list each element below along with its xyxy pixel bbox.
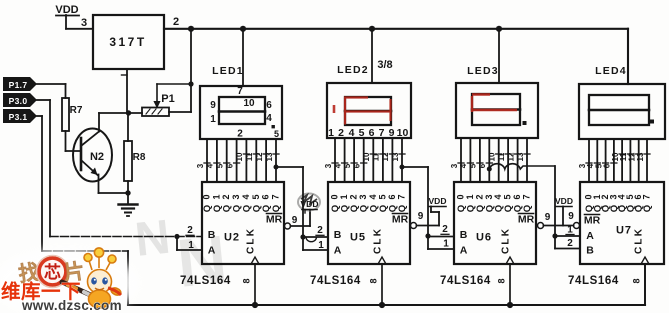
svg-text:3/8: 3/8 — [377, 59, 392, 71]
resistor R7 — [62, 98, 83, 131]
pin label 2 (U6 B) — [441, 224, 449, 235]
svg-text:11: 11 — [245, 152, 254, 161]
svg-text:5: 5 — [503, 194, 513, 199]
svg-text:A: A — [334, 245, 342, 257]
svg-text:B: B — [586, 245, 594, 257]
svg-text:8: 8 — [369, 278, 379, 283]
junction rail-LED3 — [496, 26, 502, 32]
svg-text:9: 9 — [418, 211, 424, 222]
svg-text:U2: U2 — [224, 232, 240, 244]
svg-text:R8: R8 — [133, 152, 146, 163]
junction P1 wiper to rail branch — [188, 81, 193, 86]
svg-text:B: B — [460, 229, 468, 241]
svg-text:A: A — [586, 230, 594, 242]
svg-text:VDD: VDD — [55, 4, 78, 16]
svg-text:LED4: LED4 — [595, 65, 627, 77]
svg-text:3: 3 — [324, 163, 333, 168]
wire U6 MR to U7 MR and VDD — [544, 207, 574, 226]
display LED2 — [327, 83, 411, 138]
wire VDD to regulator input — [66, 15, 93, 29]
svg-text:6: 6 — [266, 100, 272, 111]
wire U6 A input — [428, 236, 454, 249]
pin label 2 (U2 B) — [186, 225, 194, 236]
svg-text:CLK: CLK — [246, 227, 257, 254]
svg-text:N: N — [133, 211, 173, 267]
U6 MR pin bubble — [538, 223, 544, 229]
connector pin P3.0 — [3, 93, 37, 107]
svg-text:6: 6 — [261, 194, 271, 199]
svg-text:4: 4 — [241, 194, 251, 199]
wire U6 B input — [428, 236, 454, 238]
shift register U7 74LS164 — [580, 182, 664, 264]
svg-text:P1.7: P1.7 — [9, 80, 28, 90]
svg-text:7: 7 — [522, 194, 532, 199]
LED3 red segment highlight — [472, 95, 517, 113]
svg-text:2: 2 — [442, 224, 448, 235]
wire P1 wiper arm — [153, 84, 191, 109]
svg-text:MR: MR — [266, 214, 283, 226]
ground — [119, 193, 138, 216]
junction rail-LED1 — [240, 26, 246, 32]
LED1 pin number annotations — [210, 86, 279, 140]
svg-text:0: 0 — [202, 194, 212, 199]
wire ADJ node to R8 — [127, 113, 129, 141]
svg-text:6: 6 — [603, 163, 612, 168]
wire U7 A input — [555, 235, 580, 237]
LED3 decimal point — [523, 121, 527, 125]
svg-text:U5: U5 — [350, 232, 366, 244]
wire U2 Q7 serial out to U5 data in — [276, 167, 303, 237]
svg-text:4: 4 — [206, 163, 215, 168]
svg-text:2: 2 — [567, 238, 573, 249]
svg-text:2: 2 — [173, 16, 179, 28]
svg-text:8: 8 — [632, 278, 642, 283]
svg-text:P1: P1 — [161, 93, 174, 105]
svg-text:11: 11 — [497, 152, 506, 161]
svg-text:1: 1 — [210, 114, 216, 125]
svg-text:A: A — [208, 245, 216, 257]
regulator U1 317T — [93, 15, 164, 69]
svg-text:5: 5 — [469, 163, 478, 168]
wires LED3 segment pins to U6 outputs — [461, 138, 527, 182]
wire VDD supply rail (top) — [164, 29, 628, 84]
wire N2 collector to ADJ node — [98, 113, 100, 132]
power label VDD (between U6 and U7) — [555, 196, 573, 207]
svg-text:1: 1 — [211, 194, 221, 199]
svg-text:1: 1 — [465, 194, 475, 199]
svg-text:13: 13 — [391, 152, 400, 161]
wire R8 to ground node — [127, 181, 129, 193]
svg-text:317T: 317T — [109, 35, 146, 49]
wire U5 A input — [303, 237, 328, 250]
shift register U5 74LS164 — [328, 182, 410, 264]
svg-text:12: 12 — [381, 152, 390, 161]
shift register U6 74LS164 — [454, 182, 536, 264]
svg-text:LED3: LED3 — [467, 65, 499, 77]
junction ADJ node — [126, 110, 131, 115]
svg-text:1: 1 — [318, 240, 324, 251]
potentiometer P1 — [142, 93, 175, 116]
svg-text:4: 4 — [333, 163, 342, 168]
svg-text:8: 8 — [242, 278, 252, 283]
connector pin P1.7 — [3, 77, 37, 91]
svg-text:CLK: CLK — [501, 227, 512, 254]
wire rail to LED2 — [371, 29, 373, 83]
svg-text:0: 0 — [330, 194, 340, 199]
svg-text:9: 9 — [568, 211, 574, 222]
svg-text:5: 5 — [377, 194, 387, 199]
wire P1.7 to R7 — [37, 84, 66, 98]
power label VDD (top left) — [55, 4, 79, 16]
svg-text:3: 3 — [231, 194, 241, 199]
svg-text:B: B — [334, 229, 342, 241]
wires LED2 segment pins to U5 outputs — [335, 138, 402, 182]
svg-text:9: 9 — [210, 100, 216, 111]
svg-text:1: 1 — [339, 194, 349, 199]
svg-text:5: 5 — [251, 194, 261, 199]
wire U5 Q7 serial out to U6 data in — [402, 167, 428, 236]
svg-text:6: 6 — [478, 163, 487, 168]
svg-text:13: 13 — [516, 152, 525, 161]
svg-text:12: 12 — [255, 152, 264, 161]
wire U7 CLK to clock rail — [644, 264, 646, 305]
wire U5 CLK to clock rail — [381, 264, 383, 305]
svg-text:MR: MR — [584, 215, 601, 227]
shift register U2 74LS164 — [202, 182, 285, 264]
svg-text:7: 7 — [642, 194, 652, 199]
svg-text:7: 7 — [271, 194, 281, 199]
svg-text:1: 1 — [188, 240, 194, 251]
svg-text:2: 2 — [338, 127, 344, 139]
wire R7 to N2 base — [66, 131, 82, 151]
U7 MR pin bubble — [574, 223, 580, 229]
svg-text:Q: Q — [397, 205, 408, 212]
svg-text:VDD: VDD — [555, 196, 573, 206]
svg-text:6: 6 — [387, 194, 397, 199]
LED2 pin numbers 1 2 4 5 6 7 9 10 — [328, 127, 408, 139]
junction U5 Q7 pin — [400, 165, 405, 170]
wire P3.1 (clock) to bottom clock rail — [37, 116, 128, 305]
display LED1 — [200, 86, 282, 139]
svg-text:www.dzsc.com: www.dzsc.com — [21, 298, 122, 313]
svg-text:2: 2 — [187, 225, 193, 236]
wire rail to LED3 — [498, 29, 500, 83]
wire U2 A/B tie — [177, 237, 202, 251]
svg-text:P3.0: P3.0 — [9, 96, 28, 106]
svg-text:2: 2 — [349, 194, 359, 199]
svg-text:8: 8 — [497, 278, 507, 283]
svg-text:U6: U6 — [476, 232, 492, 244]
display LED4 — [579, 84, 665, 139]
junction U6 data tie — [425, 233, 430, 238]
U2 MR pin bubble — [285, 223, 291, 229]
svg-text:10: 10 — [243, 98, 255, 109]
wire rail to LED1 — [242, 29, 244, 86]
svg-text:VDD: VDD — [429, 196, 447, 206]
svg-text:4: 4 — [266, 113, 272, 124]
pin number labels 3 4 5 6 10 11 12 13 (U7 outputs) — [578, 152, 650, 168]
svg-text:7: 7 — [237, 86, 243, 97]
svg-text:芯: 芯 — [44, 262, 61, 282]
svg-text:3: 3 — [196, 163, 205, 168]
node ADJ horizontal wire — [99, 112, 142, 114]
wire U5 MR to VDD — [417, 207, 440, 226]
svg-text:2: 2 — [221, 194, 231, 199]
svg-text:CLK: CLK — [634, 227, 645, 254]
connector pin P3.1 — [3, 109, 37, 123]
wire U2 CLK to clock rail — [254, 264, 256, 305]
junction clock rail U6 — [507, 302, 513, 308]
pin number labels 3 4 5 6 10 11 12 13 (U6 outputs) — [450, 152, 530, 168]
svg-text:U7: U7 — [616, 225, 632, 237]
wire U2 MR to VDD — [291, 213, 311, 226]
svg-text:MR: MR — [392, 214, 409, 226]
svg-text:74LS164: 74LS164 — [568, 275, 619, 287]
LED2 red segment highlight — [334, 98, 391, 125]
svg-text:LED2: LED2 — [337, 64, 369, 76]
svg-text:6: 6 — [225, 163, 234, 168]
svg-text:11: 11 — [372, 152, 381, 161]
wire U6 CLK to clock rail — [509, 264, 511, 305]
svg-text:MR: MR — [518, 214, 535, 226]
svg-text:LED1: LED1 — [212, 65, 244, 77]
pin number labels 3 4 5 6 10 11 12 13 (U2 outputs) — [196, 152, 279, 168]
svg-text:10: 10 — [488, 152, 497, 161]
junction U2 Q7 pin — [274, 165, 279, 170]
junction ground node — [125, 190, 130, 195]
svg-text:10: 10 — [362, 152, 371, 161]
pin label 2 (U5 B) — [316, 225, 324, 236]
svg-text:Q: Q — [522, 205, 533, 212]
wire U5 B input — [303, 237, 328, 242]
svg-text:4: 4 — [459, 163, 468, 168]
svg-text:1: 1 — [328, 127, 334, 139]
junction rail-P1 branch — [188, 26, 194, 32]
svg-text:Q: Q — [271, 205, 282, 212]
wire bottom clock rail — [128, 264, 645, 305]
svg-text:5: 5 — [343, 163, 352, 168]
svg-text:74LS164: 74LS164 — [310, 275, 361, 287]
svg-text:6: 6 — [353, 163, 362, 168]
junction clock rail U2 — [252, 302, 258, 308]
junction U5 data tie — [300, 234, 305, 239]
svg-text:74LS164: 74LS164 — [180, 275, 231, 287]
wire U6 serial out to U7 data in (with wire hops) — [489, 164, 555, 236]
resistor R8 — [124, 141, 146, 181]
pin number labels 3 4 5 6 10 11 12 13 (U5 outputs) — [324, 152, 405, 168]
pin label 1 (U7 A) — [566, 225, 574, 236]
svg-text:5: 5 — [216, 163, 225, 168]
svg-text:2: 2 — [317, 225, 323, 236]
wire regulator ADJ pin down — [122, 69, 128, 113]
svg-text:4: 4 — [368, 194, 378, 199]
svg-text:R7: R7 — [70, 105, 83, 116]
power label VDD (at U6 input) — [429, 196, 447, 207]
svg-text:A: A — [460, 245, 468, 257]
svg-text:CLK: CLK — [373, 227, 384, 254]
transistor N2 — [73, 129, 112, 182]
junction clock rail U5 — [379, 302, 385, 308]
svg-text:3: 3 — [450, 163, 459, 168]
wire U7 B input — [555, 236, 580, 249]
junction U2 data tie — [174, 234, 179, 239]
svg-text:Q: Q — [642, 205, 653, 212]
wire N2 emitter to ground node — [99, 175, 129, 194]
LED4 decimal point — [650, 120, 654, 124]
junction U6 Q3 pin — [487, 167, 492, 172]
svg-text:3: 3 — [358, 194, 368, 199]
wires LED1 segment pins to U2 outputs — [207, 139, 276, 182]
svg-text:5: 5 — [274, 129, 279, 139]
svg-text:74LS164: 74LS164 — [440, 275, 491, 287]
svg-text:10: 10 — [235, 152, 244, 161]
wire P3.0 (data) to U2 A/B — [37, 100, 202, 237]
wires LED4 segment pins to U7 outputs — [589, 139, 647, 182]
svg-text:7: 7 — [397, 194, 407, 199]
svg-text:1: 1 — [443, 239, 449, 250]
decorative site watermark logo (dzsc.com) — [0, 248, 138, 317]
svg-text:N2: N2 — [90, 151, 104, 163]
svg-text:9: 9 — [292, 215, 298, 226]
junction rail-LED2 — [369, 26, 375, 32]
wire rail to P1 right terminal — [169, 29, 191, 112]
svg-text:12: 12 — [506, 152, 515, 161]
svg-text:B: B — [208, 229, 216, 241]
U5 MR pin bubble — [411, 223, 417, 229]
svg-text:P3.1: P3.1 — [9, 112, 28, 122]
svg-text:2: 2 — [237, 129, 243, 140]
display LED3 — [456, 83, 538, 138]
svg-text:9: 9 — [545, 212, 551, 223]
svg-text:3: 3 — [81, 17, 87, 29]
power label VDD (at U5 input, smudged) — [298, 194, 320, 214]
svg-text:13: 13 — [265, 152, 274, 161]
svg-text:13: 13 — [636, 152, 645, 161]
junction U7 data tie — [552, 233, 557, 238]
